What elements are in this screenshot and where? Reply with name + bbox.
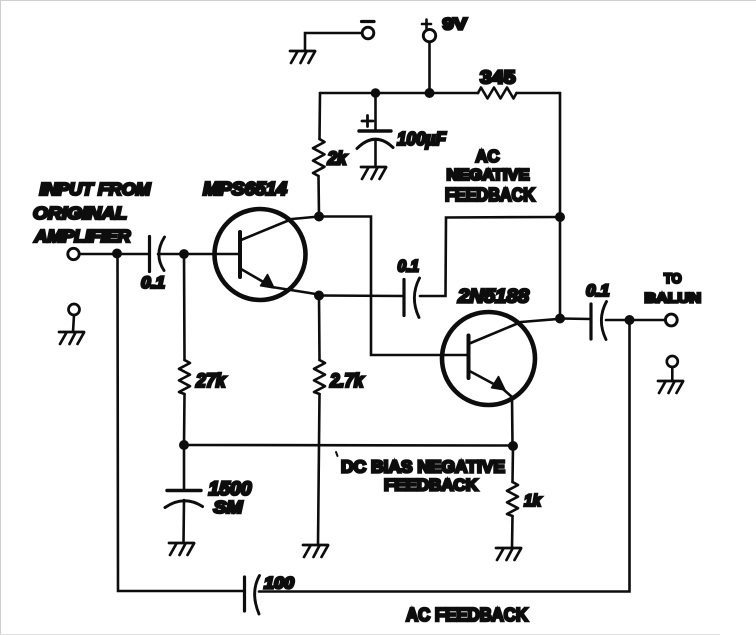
transistor Q1 emitter arrow [261, 275, 275, 289]
capacitor 0.1 (middle feedback) plates [404, 278, 420, 318]
svg-text:NEGATIVE: NEGATIVE [447, 167, 530, 184]
wire: feedback branch from tap, left and down to coupling cap [420, 217, 560, 296]
junction dot input node [112, 249, 122, 259]
junction dot output node [625, 315, 635, 325]
capacitor 100 plates (bottom feedback) [245, 576, 260, 615]
ground (below 100uF) [361, 167, 386, 179]
svg-text:AC: AC [476, 146, 500, 166]
svg-text:AMPLIFIER: AMPLIFIER [33, 226, 130, 246]
ground (below 1k) [496, 548, 521, 560]
wire: right vertical from 345 down to Q2 collector [559, 217, 562, 319]
terminal input (open circle) [68, 248, 79, 259]
label AC NEGATIVE FEEDBACK [445, 146, 535, 205]
wire: 100uF bottom lead [374, 140, 377, 167]
resistor 345 (horizontal zigzag) [478, 88, 517, 99]
svg-text:2k: 2k [327, 149, 348, 169]
junction dot Q1 emitter node [314, 291, 324, 301]
svg-text:2N5188: 2N5188 [457, 286, 529, 308]
svg-text:345: 345 [480, 67, 516, 88]
wire: 1500 SM bottom lead [182, 500, 185, 543]
svg-text:0.1: 0.1 [398, 258, 420, 276]
plus sign of 9V [422, 20, 431, 29]
transistor Q1 MPS6514 circle [215, 209, 306, 300]
svg-text:2.7k: 2.7k [329, 371, 365, 392]
transistor Q2 emitter arrow [492, 377, 506, 391]
capacitor 1500 SM plates [165, 491, 203, 508]
wire: AC feedback bottom and right vertical to output node [259, 320, 630, 592]
svg-text:FEEDBACK: FEEDBACK [445, 185, 535, 205]
ground (below 1500 SM) [169, 543, 194, 555]
wire: from middle cap left plate to Q1 emitter node [319, 294, 404, 297]
svg-text:INPUT FROM: INPUT FROM [40, 179, 151, 199]
junction dot supply/100uF [371, 88, 381, 98]
transistor Q2 base bar [467, 336, 471, 379]
terminal ground reference (right, open circle) [667, 356, 678, 367]
svg-text:TO: TO [664, 270, 682, 286]
transistor Q2 2N5188 circle [442, 312, 535, 405]
transistor Q1 base bar [238, 232, 242, 277]
wire: output cap to output terminal [606, 319, 666, 322]
label DC BIAS NEGATIVE FEEDBACK [341, 457, 505, 495]
junction dot feedback tap [555, 212, 565, 222]
junction dot DC bias left [179, 440, 189, 450]
label INPUT FROM ORIGINAL AMPLIFIER [33, 179, 151, 246]
junction dot DC bias right [508, 441, 518, 451]
resistor 2.7k leads [318, 296, 320, 546]
wire: Q1 collector to Q2 base (right and down) [319, 217, 467, 356]
wire: DC bias feedback horizontal [184, 444, 513, 447]
svg-text:9V: 9V [443, 16, 468, 34]
plus sign of 100uF [362, 116, 373, 127]
resistor 1k leads [512, 446, 513, 548]
transistor Q2 emitter line [470, 371, 513, 445]
wire: supply bus left section [320, 92, 478, 95]
ground (below 2.7k) [303, 545, 328, 557]
resistor 2.7k (vertical zigzag) [314, 360, 325, 394]
svg-text:27k: 27k [195, 371, 227, 392]
svg-text:ORIGINAL: ORIGINAL [33, 203, 127, 223]
capacitor C 100uF top lead [374, 93, 377, 131]
resistor 2k (vertical zigzag) [313, 139, 325, 176]
wire: 2k bottom lead to Q1 collector node [317, 176, 320, 217]
svg-text:BALUN: BALUN [645, 290, 702, 306]
minus sign label [362, 20, 375, 23]
wire: stem of left ground [73, 315, 74, 332]
junction dot Q1 collector node [314, 212, 324, 222]
svg-text:0.1: 0.1 [141, 274, 165, 292]
svg-text:DC BIAS NEGATIVE: DC BIAS NEGATIVE [341, 457, 505, 477]
junction dot Q1 base node [179, 249, 189, 259]
wire: stem of right ground [671, 367, 674, 381]
capacitor 0.1 input plates [150, 237, 165, 272]
ground (top left) [290, 51, 315, 63]
ground (left input) [59, 332, 84, 344]
transistor Q1 emitter line [241, 269, 319, 295]
terminal +9V (open circle) [423, 29, 435, 41]
wire: input terminal to input cap [79, 253, 149, 256]
svg-text:AC FEEDBACK: AC FEEDBACK [406, 604, 529, 625]
wire: supply bus right section to right corner [517, 93, 561, 217]
svg-text:FEEDBACK: FEEDBACK [384, 477, 478, 495]
terminal ground reference (left, open circle) [69, 304, 80, 315]
svg-text:0.1: 0.1 [586, 282, 610, 300]
svg-text:100µF: 100µF [397, 128, 447, 149]
resistor 27k leads [183, 254, 186, 445]
wire from +9V terminal down to supply bus [428, 42, 431, 93]
wire: 2k top lead from bus corner [318, 93, 321, 139]
ground (right output) [658, 381, 683, 393]
capacitor 100uF plates (polarized) [357, 131, 393, 149]
wire from minus terminal to top ground corner [305, 33, 362, 51]
wire: AC feedback left vertical from input node [118, 254, 245, 592]
junction dot supply/+9V [425, 88, 435, 98]
wire: Q2 collector node to output cap [560, 317, 590, 320]
capacitor 1500 SM top lead [183, 445, 186, 490]
svg-text:100: 100 [264, 575, 295, 593]
resistor 1k (vertical zigzag) [507, 482, 518, 516]
wire: input cap to Q1 base [158, 253, 239, 256]
svg-text:SM: SM [214, 497, 243, 517]
junction dot Q2 collector node [555, 314, 565, 324]
terminal output (open circle) [665, 314, 677, 326]
transistor Q1 collector line [241, 217, 319, 241]
transistor Q2 collector line [470, 319, 561, 344]
terminal minus (top left open circle) [362, 27, 374, 39]
label TO BALUN [645, 270, 702, 306]
svg-text:MPS6514: MPS6514 [203, 179, 287, 199]
capacitor 0.1 output plates [591, 302, 607, 340]
svg-text:1k: 1k [524, 491, 542, 510]
tick before DC label [336, 452, 338, 456]
resistor 27k (vertical zigzag) [179, 360, 190, 394]
